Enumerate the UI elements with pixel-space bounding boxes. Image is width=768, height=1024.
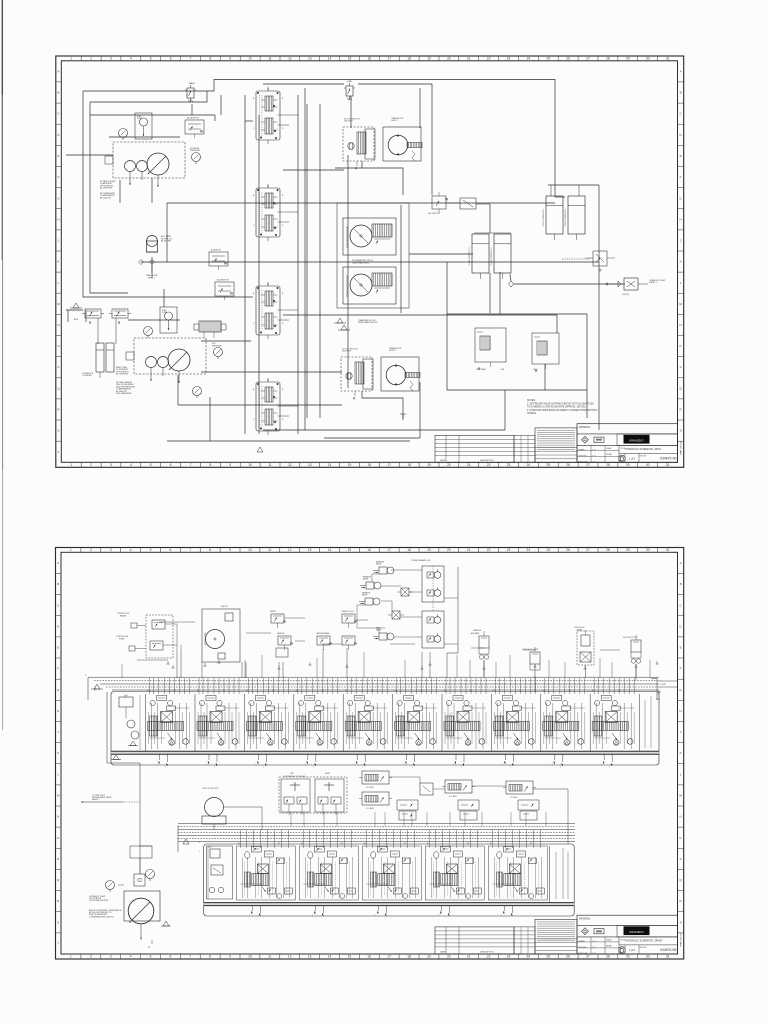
svg-text:24: 24 — [527, 463, 531, 467]
svg-text:ALLISON PSI: ALLISON PSI — [217, 279, 229, 282]
svg-text:13: 13 — [308, 955, 312, 959]
svg-text:10: 10 — [248, 955, 252, 959]
svg-text:1: 1 — [70, 548, 72, 552]
svg-text:L.P. JACK: L.P. JACK — [510, 796, 518, 799]
svg-text:T: T — [165, 767, 166, 769]
svg-text:LH ROT.: LH ROT. — [391, 120, 398, 122]
svg-text:SCALE: SCALE — [606, 939, 612, 942]
svg-text:ALLISON PSI: ALLISON PSI — [187, 117, 199, 120]
svg-text:CHECKED: CHECKED — [578, 947, 587, 949]
svg-text:E: E — [57, 646, 59, 650]
svg-text:B1: B1 — [174, 690, 176, 692]
svg-text:B: B — [680, 91, 682, 95]
svg-text:N: N — [57, 323, 59, 327]
svg-text:4-71: 4-71 — [592, 953, 595, 955]
svg-text:10: 10 — [248, 57, 252, 61]
svg-text:P: P — [57, 857, 59, 861]
svg-text:16: 16 — [367, 955, 371, 959]
svg-text:F: F — [680, 667, 682, 671]
svg-text:2. PHANTOM LINES INDICATE DIR: 2. PHANTOM LINES INDICATE DIRECT CONNECT… — [527, 409, 598, 412]
svg-text:180 PSI RT: 180 PSI RT — [342, 351, 352, 353]
svg-text:VALVE: VALVE — [363, 578, 369, 581]
svg-text:SPEC 2: SPEC 2 — [148, 277, 155, 279]
svg-text:FOR TRAM BRKE: FOR TRAM BRKE — [116, 392, 132, 395]
svg-text:E: E — [680, 646, 682, 650]
svg-text:SCALE: SCALE — [606, 447, 612, 450]
svg-text:1 of 3: 1 of 3 — [629, 457, 636, 460]
svg-text:31: 31 — [666, 57, 670, 61]
svg-text:RH ROT.: RH ROT. — [389, 350, 397, 352]
svg-text:T: T — [375, 915, 376, 917]
svg-text:30: 30 — [646, 57, 650, 61]
svg-text:T4: T4 — [267, 380, 269, 382]
svg-text:B1: B1 — [467, 843, 469, 845]
svg-text:8: 8 — [209, 548, 211, 552]
svg-text:P: P — [57, 365, 59, 369]
svg-text:3: 3 — [110, 548, 112, 552]
svg-text:8: 8 — [210, 57, 212, 61]
svg-text:HYDRAULIC SCHEMATIC, MAIN: HYDRAULIC SCHEMATIC, MAIN — [625, 448, 661, 451]
svg-text:LEFT: LEFT — [290, 773, 294, 775]
svg-text:TO ACHIEVE A 5 GPM FLOW RATE (: TO ACHIEVE A 5 GPM FLOW RATE (APPROX. 18… — [527, 406, 587, 409]
svg-text:N: N — [680, 323, 682, 327]
svg-text:COMPENSATOR AT 2450 PSI: COMPENSATOR AT 2450 PSI — [89, 915, 114, 918]
svg-text:22: 22 — [487, 548, 491, 552]
svg-text:150 PSI: 150 PSI — [622, 294, 629, 296]
svg-text:WIPER: WIPER — [270, 611, 277, 613]
svg-text:DESCRIPTION: DESCRIPTION — [480, 951, 494, 953]
svg-text:NONE: NONE — [606, 454, 612, 456]
svg-text:T: T — [362, 767, 363, 769]
svg-text:RIGHT: RIGHT — [325, 773, 330, 775]
svg-text:12: 12 — [288, 548, 292, 552]
svg-text:9: 9 — [229, 548, 231, 552]
svg-text:16: 16 — [368, 57, 372, 61]
svg-text:7: 7 — [189, 955, 191, 959]
svg-text:S: S — [57, 429, 59, 433]
svg-text:K: K — [57, 751, 59, 755]
svg-text:7: 7 — [190, 463, 192, 467]
svg-text:B1: B1 — [322, 690, 324, 692]
svg-text:CHAIN TENSION CYL: CHAIN TENSION CYL — [490, 247, 493, 265]
svg-text:PUMP: PUMP — [119, 638, 125, 640]
svg-text:29: 29 — [626, 548, 630, 552]
svg-text:L.P. JACK: L.P. JACK — [366, 786, 374, 789]
svg-text:T: T — [313, 767, 314, 769]
svg-text:4-71: 4-71 — [592, 947, 595, 949]
svg-text:S: S — [680, 429, 682, 433]
svg-text:4: 4 — [130, 548, 132, 552]
svg-text:AT 450 PSI: AT 450 PSI — [161, 240, 171, 243]
svg-text:4: 4 — [130, 57, 132, 61]
svg-text:28: 28 — [606, 955, 610, 959]
svg-text:HYDRAULIC SCHEMATIC, DRIVE: HYDRAULIC SCHEMATIC, DRIVE — [625, 940, 662, 943]
svg-text:25: 25 — [547, 463, 551, 467]
svg-text:B: B — [57, 582, 59, 586]
svg-text:19: 19 — [427, 57, 431, 61]
svg-text:23: 23 — [507, 955, 511, 959]
svg-text:B1: B1 — [421, 690, 423, 692]
svg-text:X34875-001: X34875-001 — [660, 457, 679, 461]
svg-text:22: 22 — [487, 463, 491, 467]
svg-text:T: T — [501, 915, 502, 917]
svg-text:15: 15 — [348, 57, 352, 61]
svg-text:18: 18 — [407, 548, 411, 552]
svg-text:VALVE: VALVE — [362, 594, 368, 597]
svg-text:VALVE: VALVE — [376, 563, 382, 566]
svg-text:PRESSURE: PRESSURE — [190, 150, 201, 152]
svg-text:21: 21 — [467, 57, 471, 61]
svg-text:B1: B1 — [618, 690, 620, 692]
svg-text:T4: T4 — [267, 186, 269, 188]
svg-text:B1: B1 — [569, 690, 571, 692]
svg-text:CASE DRAIN DIRECT: CASE DRAIN DIRECT — [352, 262, 371, 265]
svg-text:T: T — [255, 765, 256, 767]
svg-text:E: E — [680, 154, 682, 158]
svg-text:15: 15 — [348, 463, 352, 467]
svg-text:PUMP: PUMP — [162, 312, 168, 314]
svg-text:1000: 1000 — [208, 847, 212, 849]
svg-text:DATE: DATE — [440, 950, 446, 953]
svg-text:5: 5 — [150, 548, 152, 552]
svg-text:7: 7 — [189, 548, 191, 552]
svg-text:28: 28 — [606, 548, 610, 552]
svg-text:21: 21 — [467, 548, 471, 552]
svg-text:H: H — [57, 217, 59, 221]
svg-text:1 of 3: 1 of 3 — [629, 949, 636, 952]
svg-text:A: A — [680, 561, 682, 565]
svg-text:DWG NO: DWG NO — [640, 456, 647, 458]
svg-text:19: 19 — [427, 463, 431, 467]
svg-text:KRANZKO: KRANZKO — [629, 930, 644, 934]
svg-text:LINE: LINE — [347, 81, 352, 83]
svg-text:T: T — [312, 915, 313, 917]
svg-text:12: 12 — [288, 463, 292, 467]
svg-text:2: 2 — [90, 548, 92, 552]
svg-text:14: 14 — [328, 57, 332, 61]
svg-text:DUST HOOD TILT: DUST HOOD TILT — [623, 637, 639, 639]
svg-text:FIRST USED ON: FIRST USED ON — [681, 932, 683, 947]
svg-text:B1: B1 — [530, 843, 532, 845]
svg-text:T: T — [560, 767, 561, 769]
svg-text:11: 11 — [268, 955, 272, 959]
svg-text:APPROVED: APPROVED — [578, 952, 588, 955]
svg-text:19: 19 — [427, 548, 431, 552]
svg-text:12: 12 — [288, 57, 292, 61]
svg-text:B: B — [57, 91, 59, 95]
svg-text:5: 5 — [150, 57, 152, 61]
svg-text:HIGH: HIGH — [533, 369, 538, 371]
svg-text:T: T — [601, 765, 602, 767]
svg-text:8: 8 — [209, 955, 211, 959]
svg-text:13: 13 — [308, 57, 312, 61]
svg-text:31: 31 — [666, 955, 670, 959]
svg-text:20: 20 — [447, 463, 451, 467]
svg-text:29: 29 — [626, 57, 630, 61]
svg-text:17: 17 — [387, 548, 391, 552]
svg-text:A: A — [57, 70, 59, 74]
svg-text:K: K — [680, 751, 682, 755]
svg-text:6: 6 — [170, 548, 172, 552]
svg-text:1000: 1000 — [124, 695, 128, 697]
svg-text:T: T — [552, 765, 553, 767]
svg-text:034875-081: 034875-081 — [660, 948, 678, 952]
svg-text:T: T — [206, 765, 207, 767]
svg-text:15: 15 — [348, 548, 352, 552]
svg-text:DUST COLLECTOR: DUST COLLECTOR — [202, 788, 219, 790]
svg-text:2000 RPM A 2300 RPM: 2000 RPM A 2300 RPM — [89, 899, 108, 902]
svg-text:30: 30 — [646, 548, 650, 552]
svg-text:K: K — [680, 260, 682, 264]
svg-text:DRAWN: DRAWN — [578, 940, 585, 943]
svg-text:4-71: 4-71 — [592, 462, 595, 464]
svg-text:CHECKED: CHECKED — [578, 456, 587, 458]
svg-text:C214: C214 — [656, 699, 660, 701]
svg-text:L: L — [199, 851, 200, 853]
svg-text:ANTI: ANTI — [74, 318, 79, 321]
svg-text:19: 19 — [427, 955, 431, 959]
svg-text:T: T — [461, 767, 462, 769]
svg-text:18: 18 — [407, 57, 411, 61]
svg-text:VENT MAN: VENT MAN — [476, 368, 486, 371]
svg-text:18: 18 — [407, 955, 411, 959]
svg-text:T: T — [438, 915, 439, 917]
svg-text:4-71: 4-71 — [592, 456, 595, 458]
svg-text:15: 15 — [348, 955, 352, 959]
svg-text:900-1100 PSI: 900-1100 PSI — [428, 213, 440, 215]
svg-text:AT 2300 RPM: AT 2300 RPM — [116, 373, 128, 376]
svg-text:B1: B1 — [470, 690, 472, 692]
svg-text:B1: B1 — [371, 690, 373, 692]
svg-text:27: 27 — [586, 548, 590, 552]
svg-text:30: 30 — [646, 463, 650, 467]
svg-text:T: T — [58, 450, 60, 454]
svg-text:1: 1 — [70, 463, 72, 467]
svg-text:26: 26 — [566, 463, 570, 467]
svg-text:20: 20 — [447, 955, 451, 959]
svg-text:T: T — [57, 942, 59, 946]
svg-text:DUST HOOD GATE: DUST HOOD GATE — [522, 648, 539, 651]
svg-text:3: 3 — [110, 57, 112, 61]
svg-text:6: 6 — [170, 463, 172, 467]
svg-text:LOW: LOW — [500, 369, 504, 371]
svg-text:PUMP: PUMP — [137, 118, 143, 120]
svg-text:N: N — [680, 815, 682, 819]
svg-text:B1: B1 — [278, 843, 280, 845]
svg-text:MAIN: MAIN — [189, 82, 195, 85]
svg-text:SHEET 1: SHEET 1 — [92, 799, 99, 801]
svg-text:29: 29 — [626, 955, 630, 959]
svg-text:DUST RAISING CYL BODIES: DUST RAISING CYL BODIES — [283, 775, 306, 778]
svg-text:AT 2300 RPM: AT 2300 RPM — [100, 187, 112, 190]
svg-text:21: 21 — [467, 463, 471, 467]
svg-text:10: 10 — [248, 548, 252, 552]
svg-text:HOSING.: HOSING. — [527, 413, 537, 415]
svg-text:F: F — [57, 667, 59, 671]
svg-text:B1: B1 — [223, 690, 225, 692]
svg-text:9: 9 — [229, 463, 231, 467]
svg-text:24: 24 — [527, 57, 531, 61]
svg-text:24: 24 — [527, 955, 531, 959]
svg-text:WRENCH: WRENCH — [473, 630, 482, 632]
svg-text:A: A — [57, 561, 59, 565]
svg-text:1: 1 — [70, 57, 72, 61]
svg-text:S.P. JACK: S.P. JACK — [449, 795, 458, 798]
svg-text:17: 17 — [388, 463, 392, 467]
svg-text:CONV TENSION CYL: CONV TENSION CYL — [543, 209, 545, 227]
svg-text:B1: B1 — [404, 843, 406, 845]
svg-text:16: 16 — [367, 548, 371, 552]
svg-text:1 GPM: 1 GPM — [660, 684, 666, 686]
svg-text:11: 11 — [268, 548, 272, 552]
svg-text:18: 18 — [407, 463, 411, 467]
svg-text:6: 6 — [170, 955, 172, 959]
svg-text:20: 20 — [447, 57, 451, 61]
svg-text:H: H — [680, 217, 682, 221]
svg-text:K: K — [57, 260, 59, 264]
svg-text:20: 20 — [447, 548, 451, 552]
svg-text:16: 16 — [368, 463, 372, 467]
svg-text:22: 22 — [487, 955, 491, 959]
svg-text:21: 21 — [467, 955, 471, 959]
svg-text:DRAWN: DRAWN — [578, 449, 585, 452]
svg-text:BRAKE: BRAKE — [120, 614, 127, 617]
svg-text:180 PSI LT: 180 PSI LT — [344, 121, 354, 123]
svg-text:T: T — [404, 765, 405, 767]
svg-text:14: 14 — [328, 955, 332, 959]
svg-text:5: 5 — [150, 463, 152, 467]
svg-text:11: 11 — [268, 57, 272, 61]
svg-text:T: T — [453, 765, 454, 767]
svg-text:23: 23 — [507, 463, 511, 467]
svg-text:SHEET 2: SHEET 2 — [649, 282, 657, 284]
svg-text:CYLINDER: CYLINDER — [82, 375, 92, 377]
svg-text:B1: B1 — [519, 690, 521, 692]
svg-text:29: 29 — [626, 463, 630, 467]
svg-text:23: 23 — [507, 548, 511, 552]
svg-text:LOADER LOCK: LOADER LOCK — [341, 610, 355, 613]
svg-text:B1: B1 — [272, 690, 274, 692]
svg-text:13: 13 — [308, 548, 312, 552]
svg-text:APPROVED: APPROVED — [578, 461, 588, 464]
svg-text:28: 28 — [606, 463, 610, 467]
svg-text:NONE: NONE — [606, 946, 612, 948]
svg-text:28: 28 — [606, 57, 610, 61]
svg-text:31: 31 — [666, 463, 670, 467]
svg-text:10: 10 — [248, 463, 252, 467]
svg-text:B: B — [680, 582, 682, 586]
svg-text:3: 3 — [110, 955, 112, 959]
svg-text:12: 12 — [288, 955, 292, 959]
svg-text:2: 2 — [90, 463, 92, 467]
svg-text:R.T. JACK: R.T. JACK — [366, 807, 375, 810]
svg-text:P: P — [680, 857, 682, 861]
svg-text:S: S — [680, 920, 682, 924]
svg-text:AIR PARK: AIR PARK — [471, 632, 480, 635]
svg-text:T: T — [609, 767, 610, 769]
svg-text:8: 8 — [210, 463, 212, 467]
svg-text:T: T — [354, 765, 355, 767]
svg-text:CASE DRAIN (DWGS 2): CASE DRAIN (DWGS 2) — [358, 321, 378, 324]
svg-text:22: 22 — [487, 57, 491, 61]
svg-text:T: T — [412, 767, 413, 769]
svg-text:POWER BRAKE OFF: POWER BRAKE OFF — [411, 559, 431, 562]
svg-text:4-71: 4-71 — [592, 941, 595, 943]
svg-text:9: 9 — [229, 57, 231, 61]
svg-text:T: T — [263, 767, 264, 769]
svg-text:9: 9 — [229, 955, 231, 959]
svg-text:N: N — [57, 815, 59, 819]
svg-text:26: 26 — [566, 57, 570, 61]
svg-text:CONV TENSION CYL: CONV TENSION CYL — [565, 209, 567, 227]
svg-text:H: H — [680, 709, 682, 713]
svg-text:23: 23 — [507, 57, 511, 61]
svg-text:LADDER: LADDER — [277, 632, 285, 635]
svg-text:T: T — [502, 765, 503, 767]
svg-text:S: S — [57, 920, 59, 924]
svg-text:5: 5 — [150, 955, 152, 959]
svg-text:24: 24 — [527, 548, 531, 552]
svg-text:H: H — [57, 709, 59, 713]
svg-text:4-71: 4-71 — [592, 450, 595, 452]
svg-text:CHAIN TENSION CYL: CHAIN TENSION CYL — [468, 247, 471, 265]
svg-text:31: 31 — [666, 548, 670, 552]
svg-text:MATERIAL:: MATERIAL: — [579, 917, 591, 920]
svg-text:P: P — [680, 365, 682, 369]
svg-text:DATE: DATE — [440, 459, 446, 462]
svg-text:NOTES:: NOTES: — [527, 400, 536, 402]
svg-text:AT 4200 PSI: AT 4200 PSI — [100, 196, 111, 199]
svg-text:17: 17 — [387, 955, 391, 959]
svg-text:A-LINE PSI: A-LINE PSI — [211, 249, 221, 252]
svg-text:4: 4 — [130, 463, 132, 467]
svg-text:4: 4 — [130, 955, 132, 959]
svg-text:T4: T4 — [267, 284, 269, 286]
svg-text:27: 27 — [586, 955, 590, 959]
svg-text:2: 2 — [90, 57, 92, 61]
svg-text:13: 13 — [308, 463, 312, 467]
svg-text:7: 7 — [190, 57, 192, 61]
svg-text:30: 30 — [646, 955, 650, 959]
svg-text:1: 1 — [70, 955, 72, 959]
svg-text:MATERIAL:: MATERIAL: — [579, 426, 591, 429]
svg-text:14: 14 — [328, 548, 332, 552]
svg-text:T: T — [157, 765, 158, 767]
svg-text:25: 25 — [546, 955, 550, 959]
svg-text:17: 17 — [388, 57, 392, 61]
svg-text:25: 25 — [546, 548, 550, 552]
svg-text:1. SET RELIEF VALVE ON TRAM C: 1. SET RELIEF VALVE ON TRAM CIRCUIT HOT … — [527, 402, 594, 405]
svg-text:27: 27 — [586, 57, 590, 61]
svg-text:E: E — [57, 154, 59, 158]
svg-text:T: T — [305, 765, 306, 767]
svg-text:T: T — [214, 767, 215, 769]
svg-text:KRANZKO: KRANZKO — [629, 438, 644, 442]
svg-text:25: 25 — [547, 57, 551, 61]
svg-text:L: L — [660, 680, 661, 682]
svg-text:FIRST USED ON: FIRST USED ON — [681, 440, 683, 455]
svg-text:F: F — [680, 175, 682, 179]
svg-text:6: 6 — [170, 57, 172, 61]
svg-text:CLAMP: CLAMP — [576, 628, 583, 631]
svg-text:T: T — [510, 767, 511, 769]
svg-text:T: T — [249, 915, 250, 917]
svg-text:26: 26 — [566, 548, 570, 552]
svg-text:F: F — [58, 175, 60, 179]
svg-text:DESCRIPTION: DESCRIPTION — [480, 460, 494, 462]
svg-text:11: 11 — [268, 463, 272, 467]
svg-text:14: 14 — [328, 463, 332, 467]
